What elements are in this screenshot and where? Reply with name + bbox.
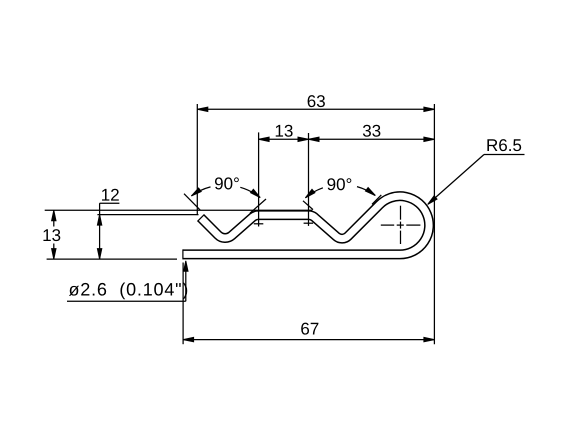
pin body (R-clip wire outline) (183, 196, 429, 254)
left 90 ext diagonal (V1 right arm extension) (250, 199, 266, 213)
pin straight leg end face (left end of bottom leg) (182, 249, 184, 259)
extension line top (13 height, runs to crest top edge) (45, 209, 313, 211)
bend center mark V1 right (254, 223, 263, 225)
dimension 12 vertical with text above (99, 203, 101, 259)
right 90 ext diagonal (V2 right arm extension) (372, 195, 381, 204)
left 90 ext diagonal (V1 left arm extension) (184, 194, 200, 211)
pin wire cut end face (left free end) (197, 214, 204, 221)
right 90 ext diagonal (V2 left arm extension) (303, 201, 313, 210)
dimension 13 top (258, 132, 260, 226)
extension line (12 height upper reference) (97, 214, 198, 216)
leader diameter 2.6 (67, 300, 186, 302)
extension line bottom (13/12 lower reference) (47, 258, 177, 260)
loop center mark (397, 224, 404, 226)
angle dimension 90 deg right (305, 188, 323, 198)
dimension 63 (196, 104, 198, 215)
dimension 33 (309, 138, 435, 140)
right tall extension line (63/33/67) (433, 104, 435, 344)
dimension 67 (182, 263, 184, 345)
bend center mark V2 left (304, 222, 314, 224)
dimension 13 left vertical (53, 210, 55, 226)
leader R6.5 (484, 154, 525, 156)
angle dimension 90 deg left (191, 187, 210, 196)
